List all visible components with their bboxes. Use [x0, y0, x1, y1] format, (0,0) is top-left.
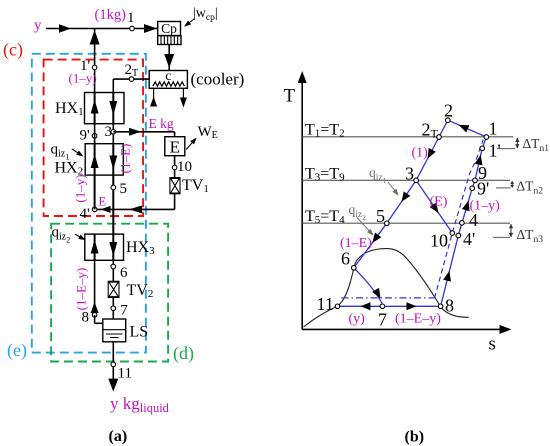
svg-text:3: 3 [105, 124, 113, 140]
svg-text:E: E [170, 138, 180, 157]
svg-text:(1–y): (1–y) [72, 174, 87, 202]
svg-text:9': 9' [80, 128, 91, 144]
svg-text:2: 2 [444, 101, 453, 121]
svg-text:7: 7 [378, 310, 387, 330]
svg-text:T5=T4: T5=T4 [305, 208, 345, 226]
svg-text:4': 4' [80, 206, 91, 222]
svg-text:(1kg): (1kg) [95, 7, 127, 23]
svg-text:(e): (e) [7, 340, 27, 361]
svg-text:(c): (c) [3, 40, 23, 61]
svg-text:(1–E–y): (1–E–y) [74, 268, 89, 311]
svg-text:9': 9' [477, 179, 489, 199]
svg-text:10: 10 [430, 231, 448, 251]
svg-text:(b): (b) [405, 429, 425, 446]
svg-text:(1–y): (1–y) [470, 199, 501, 214]
svg-text:4': 4' [463, 229, 475, 249]
svg-text:(1–E): (1–E) [340, 236, 372, 251]
svg-text:6: 6 [341, 249, 350, 269]
svg-text:(a): (a) [109, 428, 128, 445]
svg-text:T1=T2: T1=T2 [305, 122, 345, 140]
svg-text:s: s [489, 334, 496, 355]
svg-text:6: 6 [120, 265, 128, 281]
svg-text:LS: LS [130, 324, 149, 341]
svg-text:5: 5 [120, 181, 128, 197]
svg-text:(d): (d) [173, 343, 194, 364]
svg-text:(1): (1) [412, 146, 429, 161]
svg-text:(y): (y) [349, 312, 366, 327]
svg-text:11: 11 [317, 294, 334, 314]
svg-text:(1–E): (1–E) [118, 144, 133, 174]
svg-text:E: E [99, 195, 107, 209]
svg-text:Cp: Cp [161, 21, 177, 36]
svg-text:1': 1' [489, 141, 501, 161]
svg-text:7: 7 [120, 303, 128, 319]
svg-text:8: 8 [82, 310, 90, 326]
svg-text:(1–y): (1–y) [69, 71, 97, 86]
svg-text:5: 5 [376, 206, 385, 226]
svg-text:T3=T9: T3=T9 [305, 166, 345, 184]
svg-text:8: 8 [445, 296, 454, 316]
svg-text:1: 1 [127, 10, 135, 26]
svg-text:(E): (E) [430, 195, 448, 210]
svg-text:(cooler): (cooler) [191, 70, 245, 89]
svg-text:|wcp|: |wcp| [193, 6, 218, 23]
svg-text:3: 3 [405, 164, 414, 184]
svg-text:T: T [284, 86, 296, 107]
svg-text:E kg: E kg [149, 116, 174, 131]
svg-text:1: 1 [489, 119, 498, 139]
svg-text:10: 10 [177, 159, 192, 175]
svg-text:11: 11 [118, 366, 132, 382]
svg-text:y: y [34, 18, 42, 34]
svg-text:(1–E–y): (1–E–y) [395, 312, 441, 327]
